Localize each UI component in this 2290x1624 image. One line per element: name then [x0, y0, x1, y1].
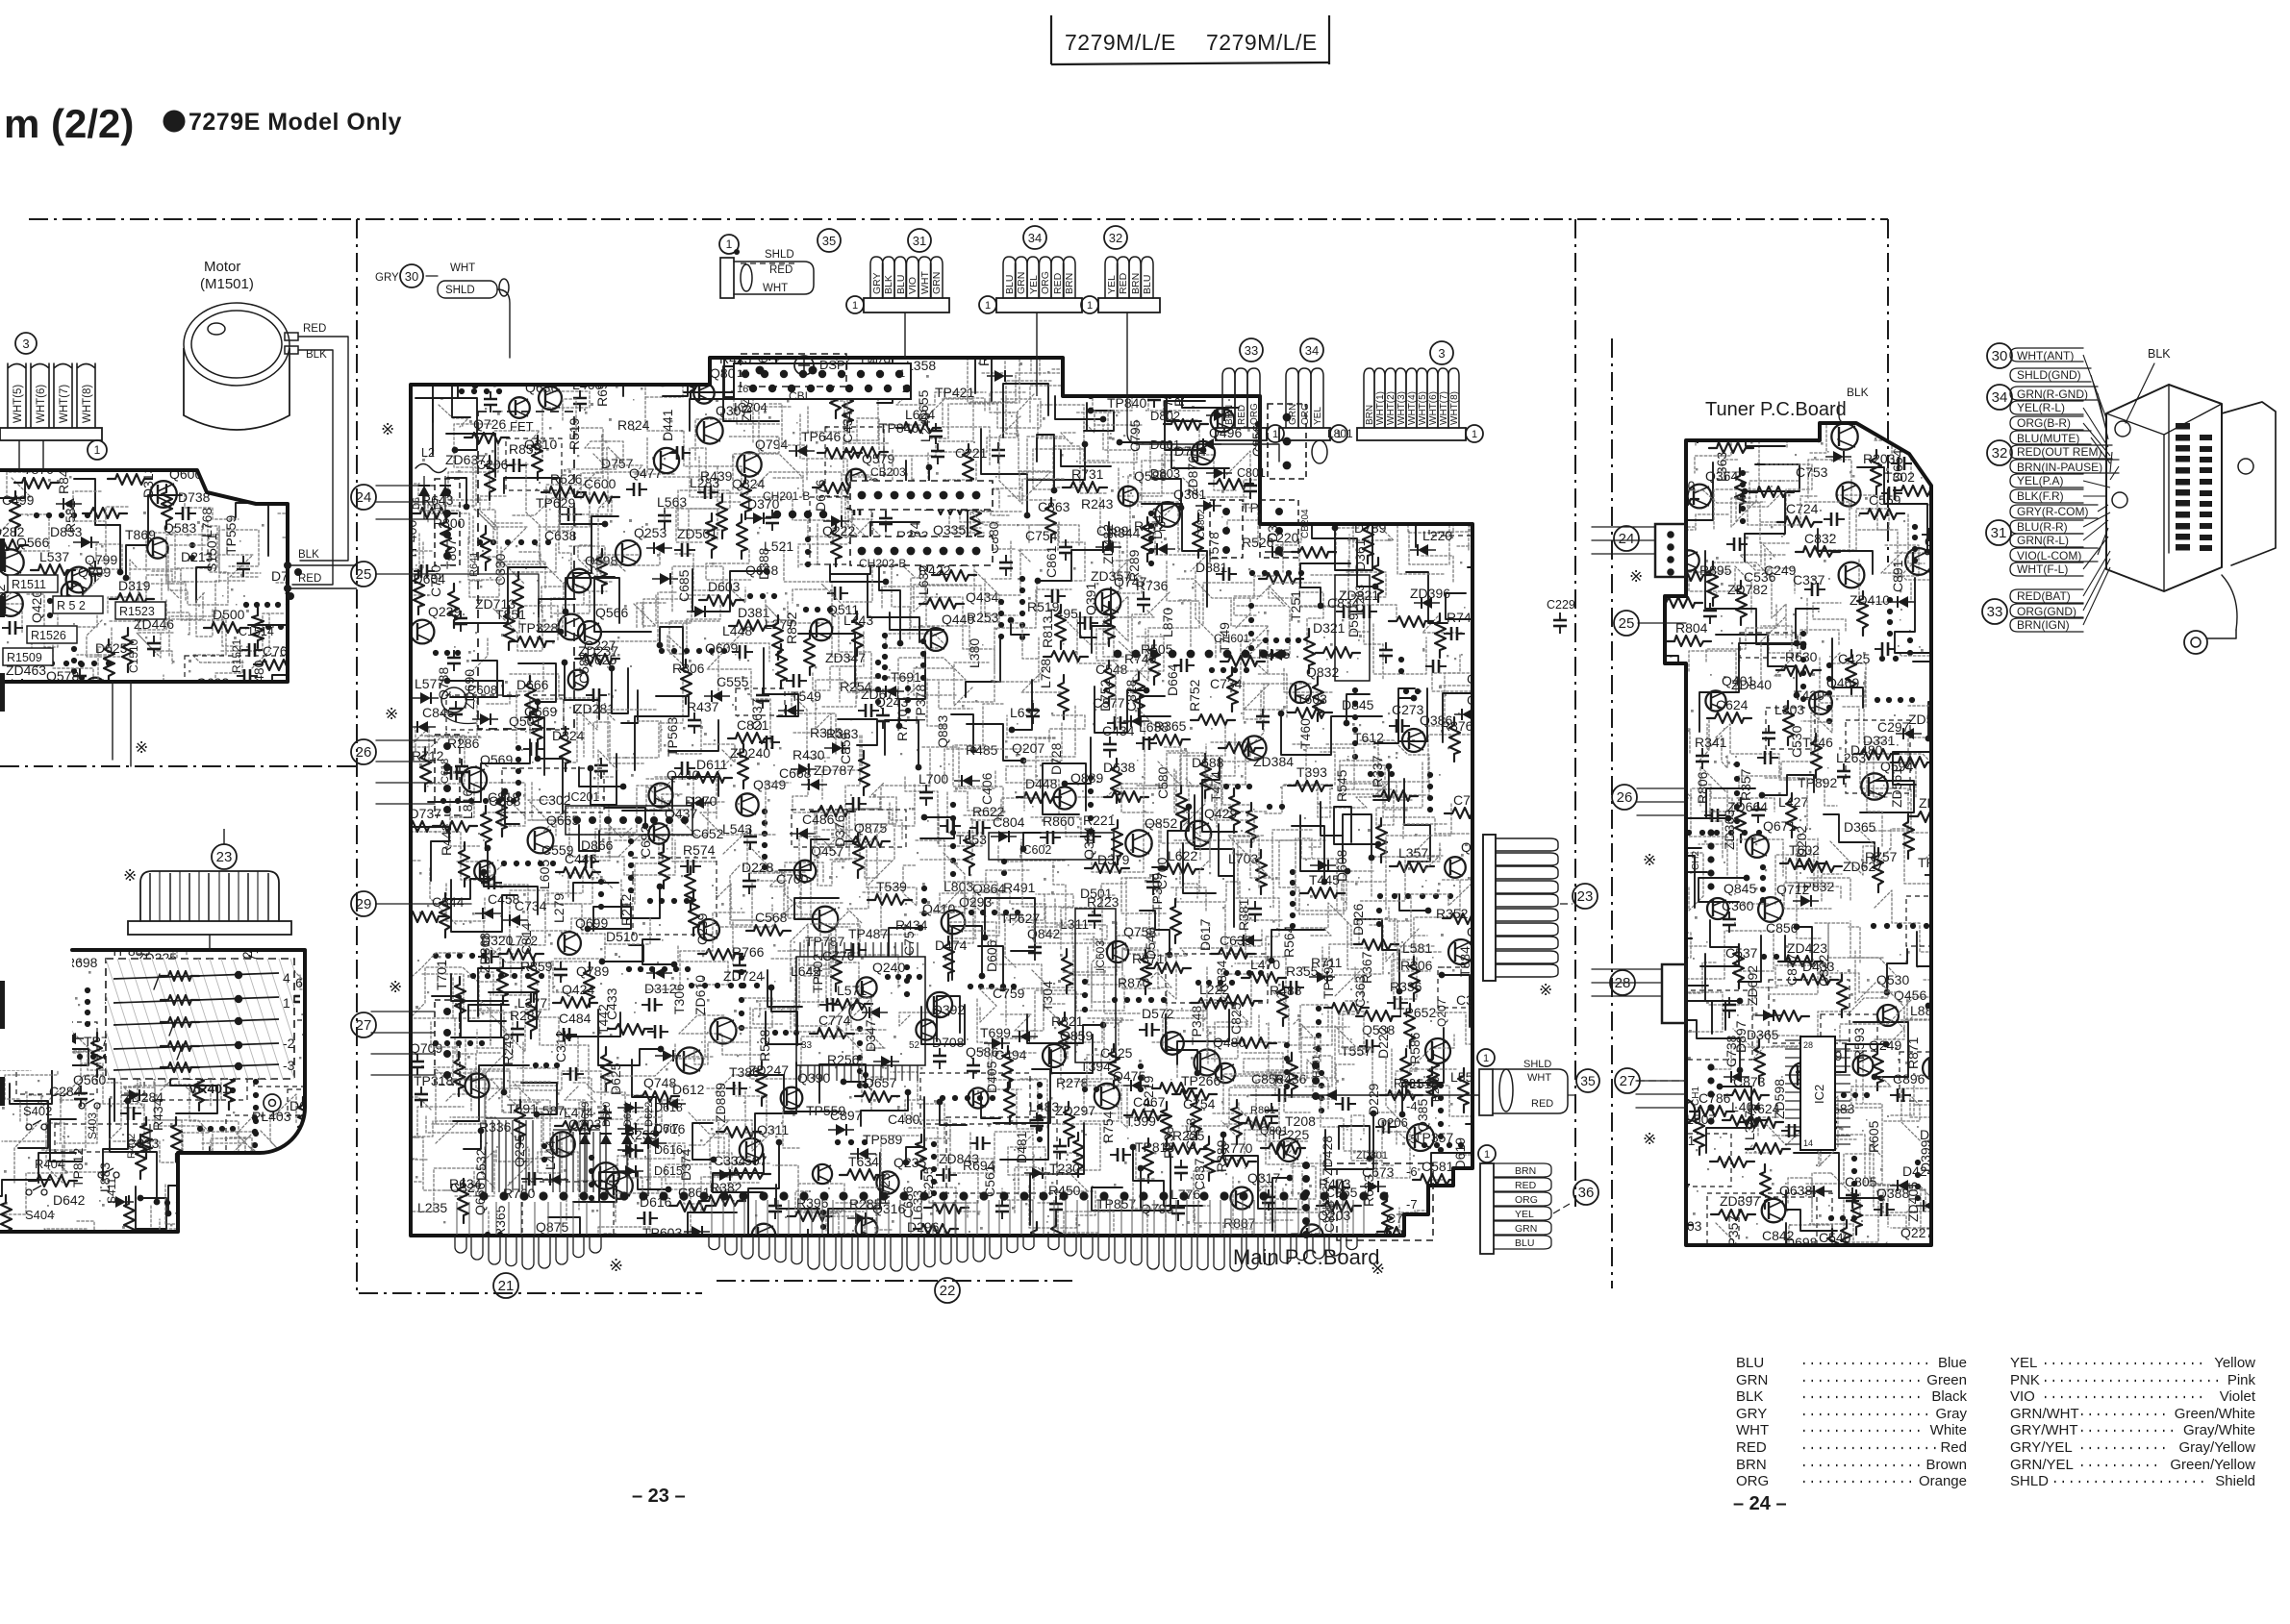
svg-text:※: ※	[135, 738, 148, 757]
svg-text:C239: C239	[694, 912, 710, 945]
svg-text:TP652: TP652	[1397, 1005, 1436, 1020]
svg-text:D572: D572	[1142, 1006, 1174, 1021]
svg-text:GRN(R-GND): GRN(R-GND)	[2017, 387, 2088, 401]
svg-text:IC2: IC2	[1812, 1085, 1826, 1104]
svg-text:7279M/L/E: 7279M/L/E	[1065, 30, 1176, 55]
svg-text:C795: C795	[1127, 419, 1143, 452]
svg-text:C494: C494	[994, 1047, 1027, 1062]
svg-text:L444: L444	[542, 1140, 558, 1170]
svg-text:m (2/2): m (2/2)	[4, 101, 134, 146]
svg-text:Q390: Q390	[797, 1070, 830, 1086]
svg-text:D666: D666	[516, 677, 549, 692]
svg-text:WHT(ANT): WHT(ANT)	[2017, 349, 2074, 362]
svg-text:D222: D222	[1375, 1026, 1391, 1059]
svg-text:25: 25	[356, 566, 372, 583]
svg-text:IC201: IC201	[567, 790, 599, 804]
svg-text:L470: L470	[1250, 957, 1280, 972]
svg-text:1: 1	[1484, 1149, 1490, 1161]
svg-text:L587: L587	[535, 1103, 565, 1118]
svg-text:C844: C844	[432, 894, 465, 910]
svg-text:CH201-B: CH201-B	[763, 489, 810, 503]
svg-text:YEL: YEL	[1106, 275, 1118, 294]
svg-text:R605: R605	[1866, 1120, 1881, 1153]
svg-text:※: ※	[1643, 1130, 1656, 1148]
svg-text:R593: R593	[1851, 1027, 1867, 1060]
svg-text:※: ※	[123, 866, 137, 885]
svg-text:L801: L801	[1327, 427, 1353, 440]
svg-text:GRY: GRY	[375, 272, 399, 284]
svg-text:C837: C837	[1192, 1158, 1207, 1190]
svg-text:ZD610: ZD610	[692, 975, 708, 1015]
svg-text:L377: L377	[517, 995, 547, 1011]
svg-text:ZD384: ZD384	[1253, 754, 1294, 769]
svg-text:C221: C221	[955, 445, 988, 461]
svg-text:1: 1	[1483, 1053, 1489, 1064]
svg-text:R238: R238	[1161, 1126, 1176, 1159]
svg-text:R526: R526	[550, 471, 583, 487]
svg-text:WHT: WHT	[1527, 1072, 1551, 1084]
svg-text:Green: Green	[1926, 1372, 1967, 1388]
svg-text:C825: C825	[1228, 1002, 1244, 1035]
svg-text:C548: C548	[1095, 662, 1128, 677]
svg-text:C828: C828	[1123, 679, 1139, 712]
svg-text:34: 34	[1028, 231, 1042, 245]
svg-text:T446: T446	[1802, 735, 1833, 750]
svg-text:28: 28	[1803, 1040, 1813, 1050]
svg-text:WHT(8): WHT(8)	[1449, 391, 1460, 425]
svg-text:Green/White: Green/White	[2175, 1406, 2255, 1422]
svg-text:BLK: BLK	[1736, 1388, 1763, 1405]
svg-text:32: 32	[1992, 445, 2008, 462]
svg-text:L443: L443	[843, 612, 873, 628]
svg-text:R806: R806	[672, 661, 705, 676]
svg-text:PL403: PL403	[252, 1109, 291, 1124]
svg-text:Q583: Q583	[164, 520, 196, 536]
svg-text:D622: D622	[643, 1102, 655, 1127]
svg-text:TP348: TP348	[1189, 1006, 1204, 1045]
svg-text:SHLD: SHLD	[2010, 1473, 2049, 1489]
svg-text:C559: C559	[1869, 492, 1901, 508]
svg-text:BLK: BLK	[883, 275, 894, 294]
svg-text:D540: D540	[1143, 927, 1158, 960]
svg-text:VIO(L-COM): VIO(L-COM)	[2017, 549, 2081, 562]
svg-text:C406: C406	[979, 772, 994, 805]
svg-text:R365: R365	[492, 1205, 508, 1237]
svg-text:R404: R404	[35, 1157, 64, 1171]
svg-text:Tuner P.C.Board: Tuner P.C.Board	[1705, 399, 1847, 420]
svg-text:R1509: R1509	[7, 651, 42, 664]
svg-text:25: 25	[1619, 615, 1635, 632]
svg-text:D202: D202	[1794, 825, 1809, 858]
svg-text:32: 32	[1109, 231, 1122, 245]
svg-text:D654: D654	[1890, 449, 1905, 482]
svg-text:D474: D474	[935, 937, 968, 953]
svg-text:C425: C425	[1838, 651, 1871, 666]
svg-text:Q560: Q560	[73, 1072, 106, 1087]
svg-text:R824: R824	[617, 417, 650, 433]
svg-text:R430: R430	[793, 747, 825, 762]
svg-text:Q801: Q801	[1260, 1124, 1289, 1137]
svg-text:L632: L632	[1010, 705, 1040, 720]
svg-text:D6i7: D6i7	[654, 1122, 679, 1136]
svg-text:FET: FET	[510, 419, 534, 434]
svg-text:T460: T460	[1297, 718, 1313, 749]
svg-text:Q883: Q883	[935, 715, 950, 748]
svg-text:IC602: IC602	[1019, 843, 1051, 857]
svg-text:D365: D365	[1844, 819, 1876, 835]
svg-text:1: 1	[985, 300, 991, 312]
svg-text:29: 29	[356, 896, 372, 912]
svg-text:L571: L571	[837, 983, 867, 998]
svg-text:TP421: TP421	[935, 385, 974, 400]
svg-text:DSPI: DSPI	[819, 358, 848, 372]
svg-text:RED(BAT): RED(BAT)	[2017, 589, 2071, 603]
svg-text:D638: D638	[1103, 760, 1136, 775]
svg-text:D7: D7	[433, 497, 443, 510]
svg-text:S1501: S1501	[204, 533, 219, 572]
svg-text:D708: D708	[932, 1035, 965, 1050]
svg-text:GRY/WHT: GRY/WHT	[2010, 1422, 2078, 1438]
svg-text:※: ※	[385, 705, 398, 723]
svg-text:Q253: Q253	[634, 525, 667, 540]
svg-text:WHT(5): WHT(5)	[13, 385, 24, 423]
svg-text:D448: D448	[1025, 776, 1058, 791]
svg-text:C525: C525	[1100, 1045, 1133, 1061]
svg-text:GRY: GRY	[871, 272, 883, 294]
svg-text:※: ※	[1643, 851, 1656, 869]
svg-text:D676: D676	[813, 479, 828, 512]
svg-text:D376: D376	[832, 814, 847, 847]
svg-text:L632: L632	[916, 565, 931, 595]
svg-text:C227: C227	[584, 637, 617, 653]
svg-text:C624: C624	[1716, 697, 1749, 712]
svg-text:D481: D481	[1014, 1131, 1029, 1163]
svg-text:TP309: TP309	[1149, 873, 1165, 912]
svg-text:Violet: Violet	[2220, 1388, 2256, 1405]
svg-text:TP378: TP378	[913, 685, 928, 724]
svg-text:RED: RED	[1118, 272, 1129, 294]
svg-text:RED: RED	[303, 323, 326, 335]
svg-text:30: 30	[405, 269, 418, 284]
svg-text:BLU: BLU	[895, 275, 907, 294]
svg-text:Q530: Q530	[1876, 972, 1909, 987]
svg-text:R871: R871	[1905, 1037, 1921, 1069]
svg-text:C786: C786	[1699, 1090, 1731, 1106]
svg-text:S411: S411	[105, 1178, 118, 1204]
svg-text:Q311: Q311	[757, 1122, 789, 1137]
svg-text:GRN/YEL: GRN/YEL	[2010, 1457, 2074, 1473]
svg-text:D619: D619	[580, 1102, 591, 1127]
svg-text:R641: R641	[468, 552, 480, 577]
svg-text:GRY: GRY	[1736, 1406, 1767, 1422]
svg-text:C322: C322	[1816, 954, 1831, 987]
svg-text:Orange: Orange	[1919, 1473, 1967, 1489]
svg-text:R402: R402	[126, 1134, 138, 1159]
svg-text:L235: L235	[417, 1200, 447, 1215]
svg-text:C206: C206	[476, 457, 509, 472]
svg-text:Q842: Q842	[1027, 926, 1060, 941]
svg-text:-2: -2	[283, 1036, 295, 1051]
svg-text:30: 30	[1992, 348, 2008, 364]
svg-text:Q569: Q569	[480, 752, 513, 767]
svg-text:ZD247: ZD247	[748, 1062, 789, 1078]
svg-text:28: 28	[1615, 975, 1631, 991]
svg-text:52: 52	[909, 1040, 920, 1051]
svg-text:33: 33	[1987, 604, 2003, 620]
svg-text:Q859: Q859	[1060, 1028, 1093, 1043]
svg-text:R231: R231	[1394, 1077, 1422, 1090]
svg-text:C537: C537	[1725, 945, 1758, 961]
svg-text:C486: C486	[802, 812, 835, 827]
svg-text:TP787: TP787	[805, 934, 844, 949]
svg-text:C229: C229	[1547, 598, 1575, 612]
svg-text:(M1501): (M1501)	[200, 276, 254, 292]
svg-text:GRN: GRN	[931, 272, 943, 294]
svg-text:-5: -5	[1406, 1132, 1418, 1146]
svg-text:BLU(MUTE): BLU(MUTE)	[2017, 432, 2079, 445]
svg-text:GRN: GRN	[1515, 1223, 1537, 1235]
svg-text:D752: D752	[1097, 679, 1113, 712]
svg-text:1: 1	[852, 300, 858, 312]
svg-text:BRN(IN-PAUSE): BRN(IN-PAUSE)	[2017, 461, 2102, 474]
svg-text:Q335: Q335	[933, 522, 966, 537]
svg-text:D801: D801	[1150, 437, 1180, 452]
svg-text:TP219: TP219	[1141, 1076, 1156, 1115]
svg-text:C484: C484	[559, 1011, 591, 1026]
svg-text:C757: C757	[901, 923, 917, 956]
svg-text:C685: C685	[676, 569, 692, 602]
svg-text:1: 1	[1472, 429, 1477, 440]
svg-text:CH601: CH601	[1214, 632, 1250, 645]
svg-text:C568: C568	[755, 910, 788, 925]
svg-text:L303: L303	[1774, 702, 1804, 717]
svg-text:D321: D321	[1313, 620, 1346, 636]
svg-text:BLU: BLU	[1142, 275, 1153, 294]
svg-text:1: 1	[726, 237, 733, 251]
svg-text:26: 26	[1617, 789, 1633, 806]
svg-text:Main P.C.Board: Main P.C.Board	[1233, 1245, 1379, 1269]
svg-text:C555: C555	[717, 674, 749, 689]
svg-text:White: White	[1930, 1422, 1967, 1438]
svg-text:C805: C805	[1845, 1174, 1877, 1189]
svg-text:Q852: Q852	[1145, 815, 1177, 831]
svg-text:TP402: TP402	[810, 954, 825, 993]
svg-text:Shield: Shield	[2215, 1473, 2255, 1489]
svg-text:WHT: WHT	[763, 283, 788, 294]
svg-text:R801: R801	[1250, 1105, 1275, 1116]
svg-text:L427: L427	[1778, 794, 1808, 810]
svg-text:16: 16	[737, 384, 748, 395]
svg-text:ZD297: ZD297	[1055, 1103, 1095, 1118]
svg-text:R442: R442	[439, 823, 454, 856]
svg-text:R249: R249	[500, 1033, 516, 1065]
svg-text:T884: T884	[1457, 946, 1472, 977]
svg-text:R852: R852	[784, 612, 799, 644]
svg-text:CB802: CB802	[1196, 509, 1207, 538]
svg-text:R488: R488	[1270, 983, 1302, 998]
svg-text:D331: D331	[1863, 733, 1896, 748]
svg-text:3: 3	[22, 337, 29, 351]
svg-text:R436: R436	[1274, 1071, 1307, 1087]
svg-text:R243: R243	[1081, 496, 1114, 512]
svg-text:Q845: Q845	[1724, 881, 1756, 896]
svg-text:C859: C859	[838, 732, 853, 764]
svg-text:Q207: Q207	[1435, 998, 1448, 1027]
svg-text:T853: T853	[956, 832, 987, 847]
svg-text:SHLD: SHLD	[445, 285, 475, 296]
svg-text:3: 3	[1438, 346, 1445, 361]
svg-text:C814: C814	[518, 922, 534, 955]
svg-text:C330: C330	[492, 553, 508, 586]
svg-text:-4: -4	[1406, 1099, 1418, 1113]
svg-text:Q243: Q243	[875, 694, 908, 710]
svg-text:WHT(6): WHT(6)	[36, 385, 47, 423]
svg-text:C363: C363	[1352, 975, 1368, 1008]
svg-text:R834: R834	[1214, 960, 1229, 992]
svg-text:D6: D6	[412, 497, 422, 510]
svg-text:C608: C608	[467, 683, 497, 697]
svg-text:R336: R336	[1390, 979, 1422, 994]
svg-text:23: 23	[1577, 888, 1594, 905]
svg-text:D405: D405	[984, 1061, 999, 1093]
svg-text:1: 1	[1087, 300, 1093, 312]
svg-text:S403: S403	[86, 1112, 99, 1139]
svg-text:Q410: Q410	[922, 901, 955, 916]
svg-text:YEL: YEL	[1028, 275, 1040, 294]
svg-text:R223: R223	[1087, 894, 1120, 910]
svg-text:CB204: CB204	[1300, 509, 1311, 538]
svg-text:RED: RED	[1531, 1098, 1553, 1110]
svg-text:T691: T691	[891, 669, 921, 685]
svg-text:R581: R581	[63, 500, 78, 533]
svg-text:Q310: Q310	[524, 437, 557, 452]
svg-text:T701: T701	[434, 960, 449, 990]
svg-text:WHT(8): WHT(8)	[82, 385, 93, 423]
svg-text:7279E Model Only: 7279E Model Only	[189, 109, 402, 136]
svg-text:33: 33	[1245, 343, 1258, 358]
svg-text:ZD482: ZD482	[1100, 524, 1116, 564]
svg-text:ZD782: ZD782	[1727, 582, 1768, 597]
svg-text:R876: R876	[1441, 718, 1473, 734]
svg-text:ZD240: ZD240	[730, 745, 770, 761]
svg-text:R337: R337	[1370, 755, 1385, 787]
svg-text:31: 31	[913, 234, 926, 248]
svg-text:YEL(R-L): YEL(R-L)	[2017, 401, 2065, 414]
svg-text:R770: R770	[894, 709, 910, 741]
svg-text:L220: L220	[1422, 528, 1452, 543]
svg-text:C891: C891	[1890, 560, 1905, 592]
svg-text:T251: T251	[1288, 590, 1303, 621]
svg-text:C754: C754	[1183, 1096, 1216, 1112]
svg-text:Q206: Q206	[1377, 1115, 1408, 1130]
svg-text:IC203: IC203	[1353, 585, 1367, 615]
svg-text:C582: C582	[576, 651, 591, 684]
svg-text:R336: R336	[479, 1119, 512, 1135]
svg-text:D618: D618	[654, 1101, 683, 1114]
svg-text:– 24 –: – 24 –	[1733, 1493, 1787, 1514]
svg-text:ORG(GND): ORG(GND)	[2017, 605, 2076, 618]
svg-text:ZD801: ZD801	[1356, 1150, 1388, 1162]
svg-text:※: ※	[609, 1256, 623, 1275]
svg-text:TP487: TP487	[848, 926, 888, 941]
svg-text:R860: R860	[1043, 813, 1075, 829]
svg-text:L279: L279	[551, 893, 566, 923]
svg-text:D897: D897	[1733, 1020, 1749, 1053]
svg-text:D500: D500	[213, 607, 245, 622]
svg-text:Pink: Pink	[2227, 1372, 2256, 1388]
svg-text:Yellow: Yellow	[2214, 1355, 2255, 1371]
svg-text:D728: D728	[1048, 742, 1064, 775]
svg-text:Q420: Q420	[29, 590, 44, 623]
svg-text:ZD840: ZD840	[1731, 677, 1772, 692]
svg-text:CH1: CH1	[1691, 1087, 1701, 1106]
svg-text:C832: C832	[1804, 531, 1837, 546]
svg-text:RED: RED	[1237, 405, 1247, 425]
svg-text:ZD405: ZD405	[1905, 1182, 1921, 1222]
svg-text:R381: R381	[1236, 898, 1251, 931]
svg-text:Green/Yellow: Green/Yellow	[2170, 1457, 2255, 1473]
svg-text:T306: T306	[671, 984, 687, 1014]
svg-text:R434: R434	[150, 1098, 165, 1131]
svg-text:L347: L347	[1742, 1111, 1757, 1140]
svg-text:L622: L622	[1168, 848, 1197, 863]
svg-text:C360: C360	[1722, 898, 1754, 913]
svg-text:CBI: CBI	[789, 389, 808, 403]
svg-text:C700: C700	[776, 871, 809, 887]
svg-text:C618: C618	[440, 759, 451, 784]
svg-text:1: 1	[283, 995, 290, 1011]
svg-text:BRN: BRN	[1064, 273, 1075, 294]
svg-text:BLK(F.R): BLK(F.R)	[2017, 489, 2064, 503]
svg-text:ORG: ORG	[1515, 1194, 1538, 1206]
svg-text:Q566: Q566	[595, 605, 628, 620]
svg-text:WHT: WHT	[1736, 1422, 1769, 1438]
svg-text:15: 15	[737, 368, 748, 380]
svg-text:D612: D612	[672, 1082, 705, 1097]
svg-text:R766: R766	[732, 944, 765, 960]
svg-text:SHLD(GND): SHLD(GND)	[2017, 368, 2081, 382]
svg-text:BLK: BLK	[306, 349, 327, 361]
svg-text:Q207: Q207	[1012, 740, 1044, 756]
svg-text:WHT(F-L): WHT(F-L)	[2017, 562, 2068, 576]
svg-text:T304: T304	[1040, 981, 1055, 1012]
svg-text:IC204: IC204	[734, 400, 768, 414]
svg-text:ZD410: ZD410	[1850, 592, 1890, 608]
svg-text:D319: D319	[118, 578, 151, 593]
svg-text:R731: R731	[1071, 466, 1104, 482]
svg-text:D803: D803	[1150, 466, 1180, 481]
svg-text:1: 1	[1272, 429, 1278, 440]
svg-text:※: ※	[389, 978, 402, 996]
svg-text:R895: R895	[1699, 562, 1732, 578]
svg-text:34: 34	[1305, 343, 1319, 358]
svg-text:C507: C507	[735, 1153, 768, 1168]
svg-text:YEL: YEL	[1313, 407, 1323, 425]
svg-text:RED: RED	[1515, 1180, 1537, 1191]
svg-text:– 23 –: – 23 –	[632, 1486, 686, 1507]
svg-text:ORG: ORG	[1040, 271, 1051, 294]
svg-text:L311: L311	[1060, 916, 1089, 932]
svg-text:D526: D526	[1350, 903, 1366, 936]
svg-text:C896: C896	[1893, 1071, 1925, 1087]
svg-text:※: ※	[1539, 981, 1552, 999]
svg-text:L605: L605	[537, 860, 552, 889]
svg-text:1: 1	[94, 443, 101, 457]
svg-text:C897: C897	[830, 1108, 863, 1123]
svg-text:T699: T699	[980, 1025, 1011, 1040]
svg-text:22: 22	[940, 1283, 956, 1299]
svg-text:C434: C434	[1102, 723, 1135, 738]
